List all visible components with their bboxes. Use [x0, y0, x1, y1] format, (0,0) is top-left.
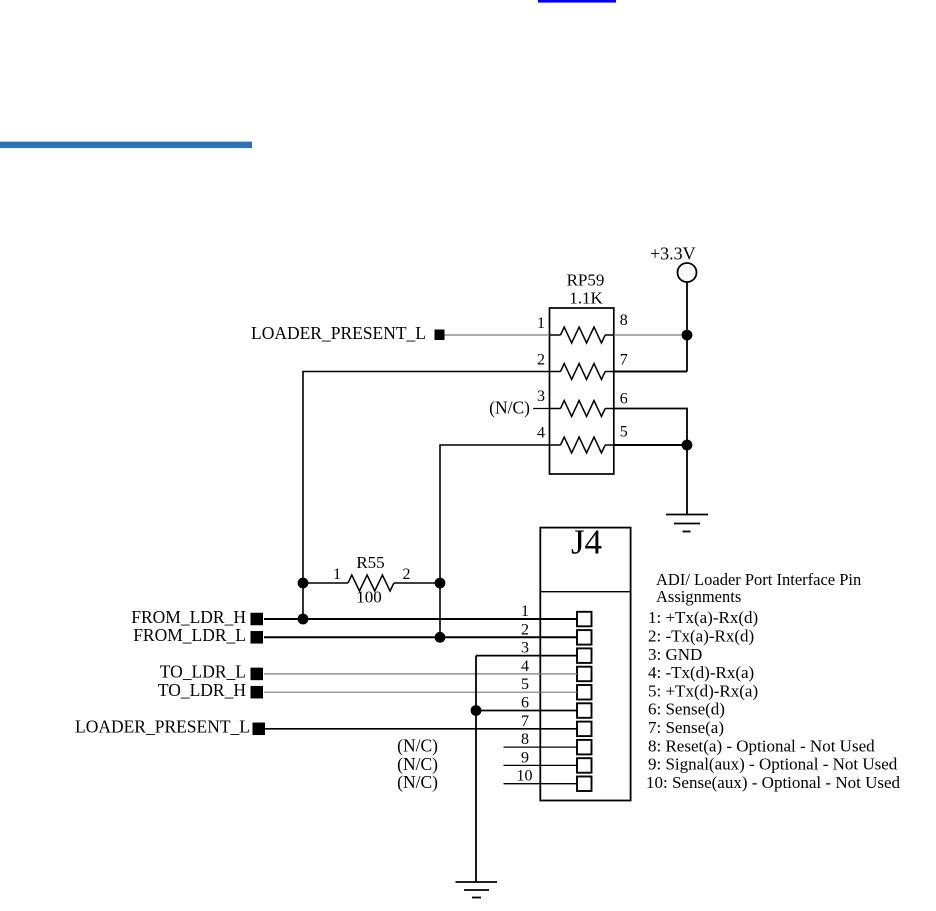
svg-text:1: 1 [521, 603, 529, 620]
svg-text:(N/C): (N/C) [397, 772, 438, 792]
svg-text:(N/C): (N/C) [489, 398, 530, 418]
svg-text:(N/C): (N/C) [397, 754, 438, 774]
svg-text:TO_LDR_H: TO_LDR_H [158, 680, 247, 700]
svg-text:J4: J4 [571, 523, 602, 562]
svg-text:8: Reset(a) - Optional - Not U: 8: Reset(a) - Optional - Not Used [648, 736, 875, 755]
svg-text:1: 1 [537, 315, 545, 332]
svg-text:FROM_LDR_H: FROM_LDR_H [131, 607, 246, 627]
svg-text:1: 1 [333, 566, 341, 583]
svg-text:9: 9 [521, 749, 529, 766]
svg-text:8: 8 [620, 312, 628, 329]
svg-text:10: Sense(aux) - Optional - No: 10: Sense(aux) - Optional - Not Used [646, 773, 901, 792]
svg-text:6: 6 [620, 391, 628, 408]
svg-text:TO_LDR_L: TO_LDR_L [160, 662, 246, 682]
svg-text:6: Sense(d): 6: Sense(d) [648, 700, 725, 719]
svg-text:R55: R55 [356, 553, 384, 572]
svg-text:RP59: RP59 [567, 271, 605, 290]
svg-text:2: 2 [537, 352, 545, 369]
svg-text:4: 4 [521, 658, 529, 675]
svg-text:2: -Tx(a)-Rx(d): 2: -Tx(a)-Rx(d) [648, 627, 754, 646]
svg-text:7: Sense(a): 7: Sense(a) [648, 718, 724, 737]
svg-text:1: +Tx(a)-Rx(d): 1: +Tx(a)-Rx(d) [648, 608, 758, 627]
svg-text:3: GND: 3: GND [648, 645, 702, 664]
svg-text:5: +Tx(d)-Rx(a): 5: +Tx(d)-Rx(a) [648, 681, 758, 700]
svg-text:1.1K: 1.1K [569, 289, 603, 308]
svg-text:5: 5 [620, 424, 628, 441]
svg-text:4: -Tx(d)-Rx(a): 4: -Tx(d)-Rx(a) [648, 663, 754, 682]
svg-text:4: 4 [537, 425, 545, 442]
svg-text:6: 6 [521, 695, 529, 712]
svg-text:5: 5 [521, 676, 529, 693]
svg-text:Assignments: Assignments [656, 587, 741, 606]
svg-text:3: 3 [537, 388, 545, 405]
svg-text:FROM_LDR_L: FROM_LDR_L [133, 625, 246, 645]
svg-text:7: 7 [521, 713, 529, 730]
svg-text:2: 2 [521, 621, 529, 638]
svg-text:9: Signal(aux) - Optional - No: 9: Signal(aux) - Optional - Not Used [648, 755, 898, 774]
svg-text:+3.3V: +3.3V [650, 244, 696, 264]
svg-text:7: 7 [620, 352, 628, 369]
svg-text:2: 2 [403, 566, 411, 583]
svg-text:10: 10 [517, 768, 533, 785]
svg-text:LOADER_PRESENT_L: LOADER_PRESENT_L [251, 323, 426, 343]
svg-text:8: 8 [521, 731, 529, 748]
svg-text:(N/C): (N/C) [397, 736, 438, 756]
svg-text:3: 3 [521, 640, 529, 657]
svg-text:LOADER_PRESENT_L: LOADER_PRESENT_L [75, 717, 250, 737]
